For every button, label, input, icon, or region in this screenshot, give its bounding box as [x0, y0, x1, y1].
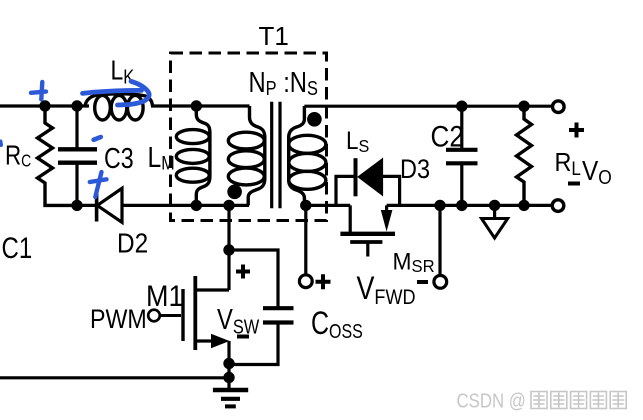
watermark	[457, 389, 526, 412]
resistor RL	[517, 106, 532, 205]
wire VFWD- branch	[438, 205, 441, 275]
label C1	[2, 230, 33, 264]
node RL top	[518, 101, 529, 112]
transformer T1 dashed box	[171, 53, 327, 221]
node bottom-left junction	[71, 200, 82, 211]
label T1	[259, 21, 289, 51]
wire bottom rail right of MSR	[387, 204, 553, 207]
resistor RC	[38, 106, 78, 205]
wire drain vertical M1	[227, 205, 230, 290]
diode D2	[95, 190, 99, 222]
wire top-right rail	[304, 105, 552, 108]
capacitor C3	[58, 106, 97, 205]
capacitor C2	[446, 106, 478, 205]
gate terminal circle	[148, 310, 160, 322]
plus VFWD	[316, 274, 331, 289]
minus output	[568, 182, 580, 186]
label LK	[111, 55, 135, 87]
minus VSW	[237, 335, 249, 339]
node input/Rc top	[39, 100, 50, 111]
label VSW	[217, 303, 260, 338]
node C2 bottom	[456, 200, 467, 211]
plus VSW	[236, 265, 250, 279]
node source/Coss return	[223, 358, 234, 369]
label LS	[346, 127, 369, 156]
polarity dot NP	[227, 185, 242, 200]
svg-text:C1: C1	[2, 230, 33, 264]
minus VFWD	[417, 280, 428, 284]
terminal Vo- circle	[552, 200, 564, 212]
svg-text:PWM: PWM	[90, 304, 147, 334]
wire node to D2	[77, 204, 96, 207]
terminal Vo+ circle	[553, 101, 565, 113]
core	[272, 102, 280, 209]
winding NP primary	[248, 106, 265, 205]
svg-text:D3: D3	[400, 155, 430, 185]
inductor LK	[85, 94, 153, 106]
label LM	[148, 141, 175, 174]
source arrow	[211, 334, 230, 348]
transistor MSR	[349, 205, 352, 232]
label RC	[5, 140, 31, 171]
wire bottom rail left of MSR	[306, 204, 350, 207]
blue annotation arrow over LK	[83, 81, 150, 105]
svg-text:C3: C3	[104, 141, 134, 174]
label RL	[555, 149, 581, 179]
label C2	[431, 120, 464, 153]
label D2	[117, 227, 148, 259]
wire VFWD+ branch	[304, 205, 307, 274]
node RL bottom	[518, 200, 529, 211]
terminal VFWD+ circle	[299, 275, 312, 288]
ground M1	[213, 378, 248, 406]
inductor LM magnetizing	[196, 106, 210, 205]
label VFWD	[357, 271, 416, 310]
node NP bottom drain tap	[223, 200, 234, 211]
blue annotation minus at C3	[94, 137, 101, 140]
wire source to ground	[227, 341, 230, 378]
transistor M1	[160, 314, 182, 317]
gate bar	[181, 289, 184, 341]
node VFWD-	[434, 200, 445, 211]
wire top rail Lk to Np	[151, 104, 250, 107]
label MSR	[393, 248, 435, 276]
svg-text:CSDN @: CSDN @	[457, 389, 526, 412]
svg-text:M1: M1	[146, 280, 183, 314]
svg-text:T1: T1	[259, 21, 289, 51]
diode D3	[336, 176, 355, 205]
node C3 top	[71, 100, 82, 111]
node C2 top	[456, 101, 467, 112]
plus output	[569, 123, 584, 138]
node ground right	[489, 200, 500, 211]
ground right	[493, 205, 496, 218]
terminal VFWD- circle	[434, 275, 447, 288]
wire D2 to transformer	[122, 204, 249, 207]
label PWM	[90, 304, 147, 334]
node LM bottom	[191, 200, 202, 211]
label D3	[400, 155, 430, 185]
node LM top	[191, 100, 202, 111]
svg-text:C2: C2	[431, 120, 464, 153]
label C3	[104, 141, 134, 174]
label VO	[582, 154, 612, 188]
blue annotation left edge tick	[0, 142, 3, 146]
node ground rail	[223, 372, 234, 383]
wire bottom rail	[0, 376, 229, 379]
node Vsw/Coss tap	[223, 244, 234, 255]
drain stub	[195, 288, 229, 291]
capacitor COSS	[229, 250, 294, 365]
label NP:NS	[249, 66, 318, 100]
blue annotation plus top-left	[31, 82, 46, 99]
wire top-left rail	[0, 104, 89, 107]
channel bar	[193, 276, 197, 350]
label M1	[146, 280, 183, 314]
polarity dot NS	[307, 112, 322, 127]
svg-text:D2: D2	[117, 227, 148, 259]
label COSS	[311, 306, 363, 342]
node NS bottom	[300, 200, 311, 211]
winding NS secondary	[289, 106, 305, 205]
blue annotation plus at D2	[90, 172, 107, 197]
source stub	[195, 339, 213, 342]
